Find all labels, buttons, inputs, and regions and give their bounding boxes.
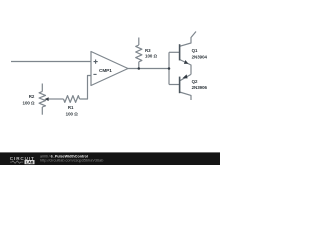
R2 wiper arrowhead [44, 97, 48, 101]
wire R2 bottom lead [41, 107, 43, 115]
resistor R3 body [136, 45, 142, 62]
svg-text:2N3904: 2N3904 [192, 54, 208, 59]
svg-text:100 Ω: 100 Ω [23, 100, 36, 105]
svg-text:100 Ω: 100 Ω [66, 112, 79, 117]
node junction base bus [168, 67, 171, 70]
Q1 emitter arrowhead [184, 60, 189, 64]
logo waveform [10, 161, 23, 163]
svg-text:R2: R2 [29, 94, 35, 99]
transistor Q2 collector [180, 92, 191, 100]
wire non-inverting input [11, 61, 91, 63]
resistor R1 body [64, 96, 80, 103]
footer bar [0, 152, 220, 165]
transistor Q2 base bar [179, 77, 181, 94]
transistor Q1 emitter [180, 60, 191, 75]
svg-text:2N3906: 2N3906 [192, 85, 208, 90]
svg-text:R3: R3 [145, 48, 151, 53]
svg-text:R1: R1 [68, 105, 74, 110]
svg-text:100 Ω: 100 Ω [145, 54, 158, 59]
wire to Q1 base [169, 51, 180, 53]
svg-text:Q2: Q2 [192, 79, 198, 84]
svg-text:Q1: Q1 [192, 48, 198, 53]
wire R3 bottom lead [138, 62, 140, 69]
op-amp U1 CMP1 triangle [91, 52, 128, 86]
svg-text:CMP1: CMP1 [99, 68, 112, 73]
transistor Q1 base bar [179, 44, 181, 60]
op-amp plus marker [94, 60, 98, 64]
wire R2 top lead [41, 84, 43, 92]
wire inverting input to feedback [80, 76, 91, 100]
wire op-amp output [128, 68, 169, 70]
wire base bus vertical [168, 52, 170, 84]
op-amp minus marker [93, 73, 96, 75]
transistor Q2 emitter [180, 74, 191, 81]
wire R3 top lead [138, 38, 140, 46]
potentiometer R2 body [39, 92, 45, 108]
transistor Q1 collector [180, 32, 196, 47]
svg-text:LAB: LAB [26, 161, 34, 165]
logo LAB box [25, 160, 35, 164]
wire to Q2 base [169, 84, 180, 86]
wire wiper to R1 [49, 98, 64, 100]
svg-text:http://circuitlab.com/csqp35bh: http://circuitlab.com/csqp35bhaV36ab [40, 159, 103, 163]
Q2 emitter arrowhead [182, 74, 187, 78]
node junction R3 output [138, 67, 141, 70]
